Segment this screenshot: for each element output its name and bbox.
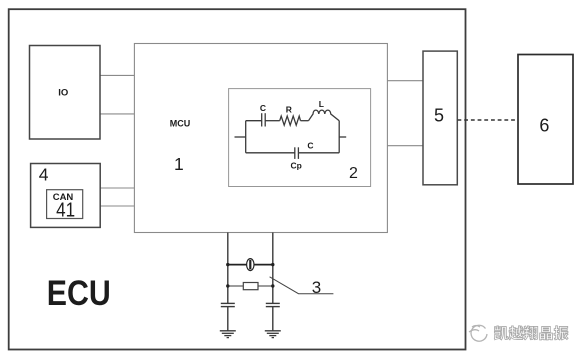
- svg-text:4: 4: [39, 165, 49, 185]
- svg-text:5: 5: [434, 106, 444, 126]
- svg-text:2: 2: [349, 165, 358, 182]
- svg-text:3: 3: [312, 278, 321, 297]
- svg-text:IO: IO: [58, 87, 68, 98]
- svg-text:6: 6: [539, 115, 549, 135]
- svg-text:C: C: [260, 103, 266, 113]
- svg-text:L: L: [319, 99, 324, 109]
- svg-text:1: 1: [174, 154, 184, 174]
- svg-text:MCU: MCU: [170, 119, 191, 129]
- svg-text:41: 41: [56, 200, 75, 222]
- svg-text:Cp: Cp: [291, 161, 302, 171]
- svg-text:C: C: [307, 140, 313, 150]
- svg-text:R: R: [286, 105, 292, 115]
- svg-text:ECU: ECU: [47, 273, 111, 313]
